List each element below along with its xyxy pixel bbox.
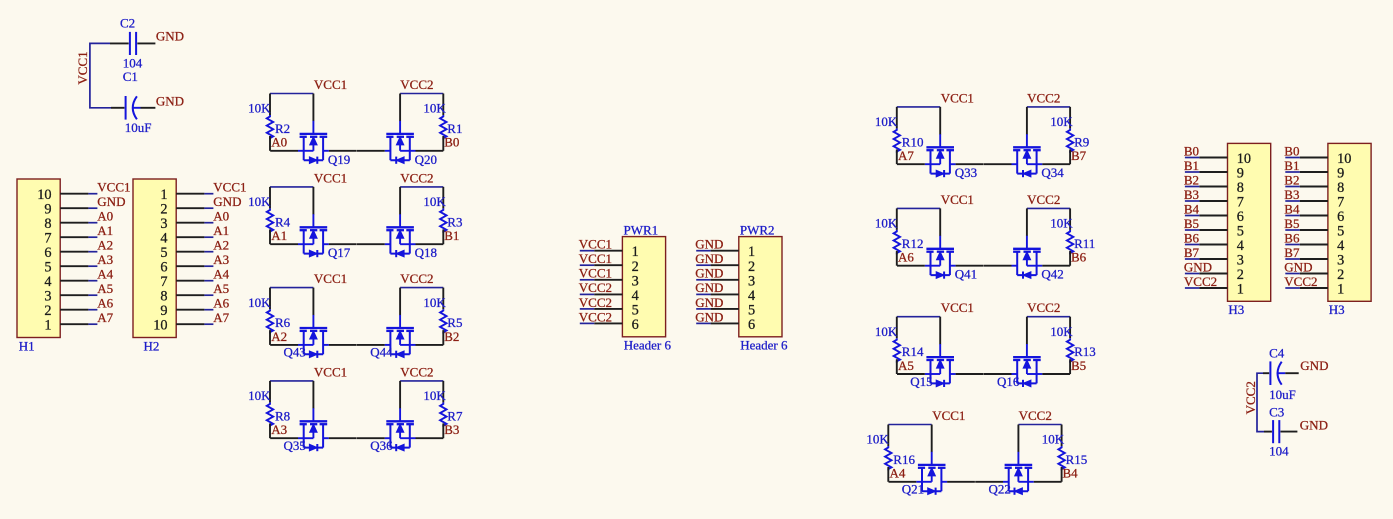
- wire net B1 stub (pin 9 H3): [1285, 171, 1299, 173]
- svg-text:VCC2: VCC2: [1284, 274, 1317, 289]
- svg-text:A5: A5: [213, 281, 229, 296]
- pin 8 of H3: [1199, 186, 1227, 188]
- svg-text:A5: A5: [898, 358, 914, 373]
- transistor Q21: [889, 425, 975, 495]
- wire VCC2 rail to R13/Q16: [1027, 316, 1070, 318]
- svg-text:Q43: Q43: [284, 345, 306, 360]
- svg-text:B4: B4: [1063, 466, 1079, 481]
- svg-text:Q19: Q19: [328, 152, 350, 167]
- svg-text:GND: GND: [1184, 259, 1212, 274]
- pin 10 of H3: [1199, 157, 1227, 159]
- pin 7 of H1: [60, 236, 88, 238]
- pin 6 of Header 6: [711, 322, 739, 324]
- wire net A3 stub (pin 5 H1): [88, 265, 97, 267]
- svg-text:10K: 10K: [875, 324, 898, 339]
- wire net A1 stub (pin 7 H1): [88, 236, 97, 238]
- resistor R3: [440, 187, 446, 244]
- wire VCC1 rail to R16/Q21: [888, 424, 931, 426]
- svg-text:B0: B0: [444, 135, 459, 150]
- svg-text:GND: GND: [1300, 358, 1328, 373]
- svg-text:Q15: Q15: [910, 374, 932, 389]
- resistor R13: [1067, 317, 1073, 374]
- svg-text:104: 104: [123, 55, 143, 70]
- svg-text:Q33: Q33: [955, 165, 977, 180]
- svg-text:VCC1: VCC1: [941, 300, 974, 315]
- svg-text:10K: 10K: [248, 388, 271, 403]
- svg-text:GND: GND: [1284, 259, 1312, 274]
- svg-text:B2: B2: [1184, 172, 1199, 187]
- svg-text:B1: B1: [444, 228, 459, 243]
- wire VCC2 rail to R15/Q22: [1018, 424, 1061, 426]
- svg-text:Q35: Q35: [284, 438, 306, 453]
- svg-text:VCC1: VCC1: [213, 179, 246, 194]
- svg-text:6: 6: [632, 317, 639, 333]
- svg-text:VCC1: VCC1: [314, 364, 347, 379]
- svg-text:B1: B1: [1184, 158, 1199, 173]
- wire net A2 stub (pin 6 H1): [88, 251, 97, 253]
- pin 1 of H3: [1199, 287, 1227, 289]
- pin 4 of H3: [1300, 244, 1328, 246]
- svg-text:A3: A3: [271, 422, 287, 437]
- svg-text:Q44: Q44: [370, 345, 393, 360]
- wire net GND stub (pin 3 Header 6): [696, 279, 710, 281]
- svg-text:10: 10: [153, 318, 167, 334]
- svg-text:C3: C3: [1269, 405, 1284, 420]
- pin 6 of H3: [1199, 215, 1227, 217]
- pin 3 of Header 6: [711, 279, 739, 281]
- svg-text:GND: GND: [695, 266, 723, 281]
- svg-text:1: 1: [1237, 282, 1244, 298]
- resistor R6: [267, 288, 273, 345]
- header H3 body: [1328, 143, 1371, 301]
- svg-text:VCC2: VCC2: [579, 309, 612, 324]
- svg-text:H3: H3: [1329, 302, 1345, 317]
- pin 2 of H3: [1199, 273, 1227, 275]
- svg-text:Q18: Q18: [415, 245, 437, 260]
- capacitor C1: [111, 96, 155, 120]
- svg-text:A2: A2: [213, 237, 229, 252]
- pin 5 of H3: [1199, 229, 1227, 231]
- pin 6 of Header 6: [594, 322, 622, 324]
- svg-text:B3: B3: [1184, 187, 1199, 202]
- header Header 6 body: [739, 237, 782, 337]
- svg-text:A1: A1: [213, 223, 229, 238]
- svg-text:GND: GND: [156, 94, 184, 109]
- pin 1 of Header 6: [594, 250, 622, 252]
- pin 4 of H3: [1199, 244, 1227, 246]
- wire net VCC2 stub (pin 4 Header 6): [580, 293, 594, 295]
- pin 2 of H1: [60, 309, 88, 311]
- pin 2 of H3: [1300, 273, 1328, 275]
- svg-text:A7: A7: [97, 310, 113, 325]
- wire net A6 stub (pin 2 H1): [88, 309, 97, 311]
- pin 3 of H3: [1300, 258, 1328, 260]
- svg-text:VCC1: VCC1: [941, 90, 974, 105]
- svg-text:104: 104: [1269, 444, 1289, 459]
- svg-text:GND: GND: [695, 251, 723, 266]
- capacitor C4: [1263, 361, 1299, 385]
- wire net B5 stub (pin 5 H3): [1185, 229, 1199, 231]
- header Header 6 body: [622, 237, 665, 337]
- svg-text:10K: 10K: [875, 114, 898, 129]
- resistor R1: [440, 94, 446, 151]
- svg-text:Q41: Q41: [955, 267, 977, 282]
- svg-text:VCC1: VCC1: [75, 51, 90, 84]
- capacitor C3: [1264, 420, 1297, 443]
- wire net GND stub (pin 4 Header 6): [696, 293, 710, 295]
- svg-text:A0: A0: [213, 208, 229, 223]
- svg-text:C2: C2: [120, 16, 135, 31]
- svg-text:VCC1: VCC1: [941, 192, 974, 207]
- wire VCC1 rail to R14/Q15: [897, 316, 940, 318]
- pin 8 of H2: [176, 294, 204, 296]
- pin 5 of H2: [176, 251, 204, 253]
- svg-text:Q16: Q16: [997, 374, 1020, 389]
- svg-text:VCC1: VCC1: [314, 271, 347, 286]
- wire net A1 stub (pin 4 H2): [204, 236, 213, 238]
- svg-text:A6: A6: [97, 295, 113, 310]
- resistor R5: [440, 288, 446, 345]
- wire net B2 stub (pin 8 H3): [1185, 186, 1199, 188]
- transistor Q44: [357, 288, 443, 358]
- wire net A6 stub (pin 9 H2): [204, 309, 213, 311]
- pin 10 of H2: [176, 323, 204, 325]
- svg-text:3: 3: [632, 273, 639, 289]
- svg-text:10uF: 10uF: [1269, 387, 1296, 402]
- svg-text:1: 1: [748, 244, 755, 260]
- transistor Q42: [984, 208, 1070, 278]
- svg-text:Header 6: Header 6: [740, 338, 788, 353]
- svg-text:Q42: Q42: [1041, 267, 1063, 282]
- wire VCC1 rail to R8/Q35: [270, 380, 313, 382]
- svg-text:A3: A3: [97, 252, 113, 267]
- svg-text:VCC1: VCC1: [579, 266, 612, 281]
- wire net VCC1 stub (pin 1 Header 6): [580, 250, 594, 252]
- svg-text:VCC2: VCC2: [1184, 274, 1217, 289]
- pin 6 of H2: [176, 265, 204, 267]
- pin 3 of H2: [176, 222, 204, 224]
- svg-text:Q17: Q17: [328, 245, 351, 260]
- svg-text:PWR1: PWR1: [624, 222, 659, 237]
- svg-text:VCC2: VCC2: [400, 271, 433, 286]
- wire net VCC2 stub (pin 1 H3): [1285, 287, 1299, 289]
- svg-text:GND: GND: [695, 237, 723, 252]
- wire net A3 stub (pin 6 H2): [204, 265, 213, 267]
- svg-text:10K: 10K: [866, 432, 889, 447]
- pin 9 of H3: [1199, 171, 1227, 173]
- transistor Q41: [897, 208, 983, 278]
- svg-text:VCC2: VCC2: [400, 170, 433, 185]
- wire net VCC2 stub (pin 1 H3): [1185, 287, 1199, 289]
- wire VCC1 rail to R6/Q43: [270, 287, 313, 289]
- pin 4 of Header 6: [711, 293, 739, 295]
- svg-text:B6: B6: [1184, 230, 1200, 245]
- resistor R10: [894, 107, 900, 164]
- wire net B0 stub (pin 10 H3): [1285, 157, 1299, 159]
- svg-text:C4: C4: [1269, 345, 1285, 360]
- resistor R7: [440, 381, 446, 438]
- svg-text:B5: B5: [1071, 358, 1086, 373]
- wire VCC2 rail to R3/Q18: [400, 186, 443, 188]
- wire net VCC2 stub (pin 5 Header 6): [580, 308, 594, 310]
- wire net B1 stub (pin 9 H3): [1185, 171, 1199, 173]
- transistor Q15: [897, 317, 983, 387]
- wire net B6 stub (pin 4 H3): [1285, 244, 1299, 246]
- pin 5 of Header 6: [594, 308, 622, 310]
- svg-text:1: 1: [632, 244, 639, 260]
- pin 3 of H3: [1199, 258, 1227, 260]
- svg-text:10K: 10K: [423, 295, 446, 310]
- pin 1 of H2: [176, 193, 204, 195]
- svg-text:10uF: 10uF: [125, 120, 152, 135]
- svg-text:B4: B4: [1284, 201, 1300, 216]
- svg-text:A2: A2: [97, 237, 113, 252]
- svg-text:PWR2: PWR2: [740, 222, 775, 237]
- pin 7 of H3: [1199, 200, 1227, 202]
- pin 3 of Header 6: [594, 279, 622, 281]
- pin 9 of H3: [1300, 171, 1328, 173]
- pin 7 of H2: [176, 280, 204, 282]
- pin 7 of H3: [1300, 200, 1328, 202]
- wire VCC1 rail to R12/Q41: [897, 207, 940, 209]
- transistor Q36: [357, 381, 443, 451]
- transistor Q33: [897, 107, 983, 177]
- pin 4 of H1: [60, 280, 88, 282]
- pin 6 of H1: [60, 251, 88, 253]
- svg-text:10K: 10K: [248, 295, 271, 310]
- svg-text:1: 1: [44, 318, 51, 334]
- wire VCC2 rail to R11/Q42: [1027, 207, 1070, 209]
- wire net GND stub (pin 9 H1): [88, 207, 97, 209]
- wire net A0 stub (pin 3 H2): [204, 222, 213, 224]
- svg-text:GND: GND: [1300, 418, 1328, 433]
- svg-text:B6: B6: [1071, 250, 1087, 265]
- resistor R4: [267, 187, 273, 244]
- wire net B7 stub (pin 3 H3): [1285, 258, 1299, 260]
- wire net GND stub (pin 1 Header 6): [696, 250, 710, 252]
- svg-text:VCC2: VCC2: [1243, 381, 1258, 414]
- svg-text:GND: GND: [695, 280, 723, 295]
- wire net GND stub (pin 2 Header 6): [696, 264, 710, 266]
- transistor Q20: [357, 94, 443, 164]
- wire net A7 stub (pin 10 H2): [204, 323, 213, 325]
- svg-text:B7: B7: [1284, 245, 1300, 260]
- svg-text:A2: A2: [271, 329, 287, 344]
- wire VCC2 rail to R9/Q34: [1027, 106, 1070, 108]
- pin 1 of H3: [1300, 287, 1328, 289]
- svg-text:VCC2: VCC2: [579, 280, 612, 295]
- svg-text:A0: A0: [271, 135, 287, 150]
- pin 6 of H3: [1300, 215, 1328, 217]
- svg-text:Q34: Q34: [1041, 165, 1064, 180]
- transistor Q34: [984, 107, 1070, 177]
- transistor Q16: [984, 317, 1070, 387]
- transistor Q18: [357, 187, 443, 257]
- wire net GND stub (pin 2 H2): [204, 207, 213, 209]
- pin 5 of H1: [60, 265, 88, 267]
- svg-text:A1: A1: [271, 228, 287, 243]
- svg-text:A7: A7: [898, 148, 914, 163]
- svg-text:A6: A6: [898, 250, 914, 265]
- header H2 body: [133, 179, 176, 338]
- svg-text:10K: 10K: [1050, 324, 1073, 339]
- wire net A4 stub (pin 4 H1): [88, 280, 97, 282]
- svg-text:VCC2: VCC2: [1027, 300, 1060, 315]
- pin 10 of H3: [1300, 157, 1328, 159]
- wire VCC1 rail to R10/Q33: [897, 106, 940, 108]
- pin 1 of H1: [60, 323, 88, 325]
- svg-text:VCC2: VCC2: [1027, 192, 1060, 207]
- pin 2 of H2: [176, 207, 204, 209]
- pin 2 of Header 6: [711, 264, 739, 266]
- svg-text:A1: A1: [97, 223, 113, 238]
- wire net GND stub (pin 2 H3): [1185, 273, 1199, 275]
- svg-text:A7: A7: [213, 310, 229, 325]
- wire VCC1 rail to R4/Q17: [270, 186, 313, 188]
- svg-text:B4: B4: [1184, 201, 1200, 216]
- svg-text:GND: GND: [695, 295, 723, 310]
- svg-text:H2: H2: [144, 338, 160, 353]
- svg-text:10K: 10K: [423, 194, 446, 209]
- wire net A5 stub (pin 8 H2): [204, 294, 213, 296]
- svg-text:10K: 10K: [248, 194, 271, 209]
- svg-text:VCC1: VCC1: [314, 77, 347, 92]
- transistor Q43: [270, 288, 356, 358]
- svg-text:VCC2: VCC2: [579, 295, 612, 310]
- svg-text:Q22: Q22: [989, 482, 1011, 497]
- svg-text:VCC1: VCC1: [579, 251, 612, 266]
- wire VCC2 rail (bottom-right): [1257, 373, 1264, 431]
- wire net B5 stub (pin 5 H3): [1285, 229, 1299, 231]
- svg-text:VCC1: VCC1: [579, 237, 612, 252]
- svg-text:10K: 10K: [1042, 432, 1065, 447]
- resistor R12: [894, 208, 900, 265]
- transistor Q17: [270, 187, 356, 257]
- transistor Q19: [270, 94, 356, 164]
- wire net B4 stub (pin 6 H3): [1185, 215, 1199, 217]
- svg-text:A3: A3: [213, 252, 229, 267]
- svg-text:A6: A6: [213, 295, 229, 310]
- svg-text:A4: A4: [213, 266, 229, 281]
- resistor R15: [1058, 425, 1064, 482]
- svg-text:VCC2: VCC2: [400, 364, 433, 379]
- svg-text:VCC2: VCC2: [400, 77, 433, 92]
- svg-text:B3: B3: [1284, 187, 1299, 202]
- resistor R14: [894, 317, 900, 374]
- svg-text:VCC1: VCC1: [97, 179, 130, 194]
- pin 5 of Header 6: [711, 308, 739, 310]
- pin 9 of H1: [60, 207, 88, 209]
- resistor R9: [1067, 107, 1073, 164]
- wire VCC2 rail to R1/Q20: [400, 93, 443, 95]
- wire net VCC1 stub (pin 1 H2): [204, 193, 213, 195]
- svg-text:3: 3: [748, 273, 755, 289]
- wire net VCC1 stub (pin 3 Header 6): [580, 279, 594, 281]
- header H1 body: [17, 179, 60, 338]
- pin 4 of H2: [176, 236, 204, 238]
- svg-text:10K: 10K: [1050, 114, 1073, 129]
- wire net GND stub (pin 2 H3): [1285, 273, 1299, 275]
- svg-text:GND: GND: [97, 194, 125, 209]
- svg-text:VCC1: VCC1: [932, 408, 965, 423]
- svg-text:B7: B7: [1184, 245, 1200, 260]
- wire net B0 stub (pin 10 H3): [1185, 157, 1199, 159]
- svg-text:10K: 10K: [423, 101, 446, 116]
- svg-text:H3: H3: [1228, 302, 1244, 317]
- wire net GND stub (pin 5 Header 6): [696, 308, 710, 310]
- wire net VCC2 stub (pin 6 Header 6): [580, 322, 594, 324]
- wire net VCC1 stub (pin 10 H1): [88, 193, 97, 195]
- svg-text:H1: H1: [19, 338, 35, 353]
- wire net B3 stub (pin 7 H3): [1285, 200, 1299, 202]
- svg-text:B6: B6: [1284, 230, 1300, 245]
- svg-text:VCC2: VCC2: [1027, 90, 1060, 105]
- svg-text:A5: A5: [97, 281, 113, 296]
- wire VCC2 rail to R5/Q44: [400, 287, 443, 289]
- svg-text:Q20: Q20: [415, 152, 437, 167]
- pin 1 of Header 6: [711, 250, 739, 252]
- pin 8 of H1: [60, 222, 88, 224]
- svg-text:VCC2: VCC2: [1019, 408, 1052, 423]
- svg-text:B0: B0: [1184, 143, 1199, 158]
- resistor R16: [885, 425, 891, 482]
- pin 10 of H1: [60, 193, 88, 195]
- pin 5 of H3: [1300, 229, 1328, 231]
- wire net GND stub (pin 6 Header 6): [696, 322, 710, 324]
- svg-text:Header 6: Header 6: [624, 338, 672, 353]
- resistor R8: [267, 381, 273, 438]
- svg-text:B2: B2: [1284, 172, 1299, 187]
- svg-text:GND: GND: [695, 309, 723, 324]
- transistor Q35: [270, 381, 356, 451]
- wire net A5 stub (pin 3 H1): [88, 294, 97, 296]
- svg-text:B0: B0: [1284, 143, 1299, 158]
- svg-text:GND: GND: [156, 28, 184, 43]
- pin 8 of H3: [1300, 186, 1328, 188]
- wire net B3 stub (pin 7 H3): [1185, 200, 1199, 202]
- wire VCC2 rail to R7/Q36: [400, 380, 443, 382]
- svg-text:GND: GND: [213, 194, 241, 209]
- wire net B7 stub (pin 3 H3): [1185, 258, 1199, 260]
- wire net A4 stub (pin 7 H2): [204, 280, 213, 282]
- svg-text:10K: 10K: [423, 388, 446, 403]
- wire net B4 stub (pin 6 H3): [1285, 215, 1299, 217]
- svg-text:B5: B5: [1284, 216, 1299, 231]
- wire VCC1 rail (top-left): [90, 43, 111, 107]
- svg-text:B2: B2: [444, 329, 459, 344]
- wire net B2 stub (pin 8 H3): [1285, 186, 1299, 188]
- wire net A0 stub (pin 8 H1): [88, 222, 97, 224]
- resistor R11: [1067, 208, 1073, 265]
- svg-text:B1: B1: [1284, 158, 1299, 173]
- capacitor C2: [110, 32, 155, 55]
- svg-text:A4: A4: [890, 466, 906, 481]
- svg-text:B3: B3: [444, 422, 459, 437]
- resistor R2: [267, 94, 273, 151]
- svg-text:C1: C1: [123, 69, 138, 84]
- wire net A7 stub (pin 1 H1): [88, 323, 97, 325]
- wire VCC1 rail to R2/Q19: [270, 93, 313, 95]
- svg-text:B5: B5: [1184, 216, 1199, 231]
- wire net VCC1 stub (pin 2 Header 6): [580, 264, 594, 266]
- svg-text:10K: 10K: [1050, 216, 1073, 231]
- svg-text:Q21: Q21: [902, 482, 924, 497]
- transistor Q22: [975, 425, 1061, 495]
- wire net B6 stub (pin 4 H3): [1185, 244, 1199, 246]
- svg-text:VCC1: VCC1: [314, 170, 347, 185]
- svg-text:Q36: Q36: [370, 438, 393, 453]
- svg-text:B7: B7: [1071, 148, 1087, 163]
